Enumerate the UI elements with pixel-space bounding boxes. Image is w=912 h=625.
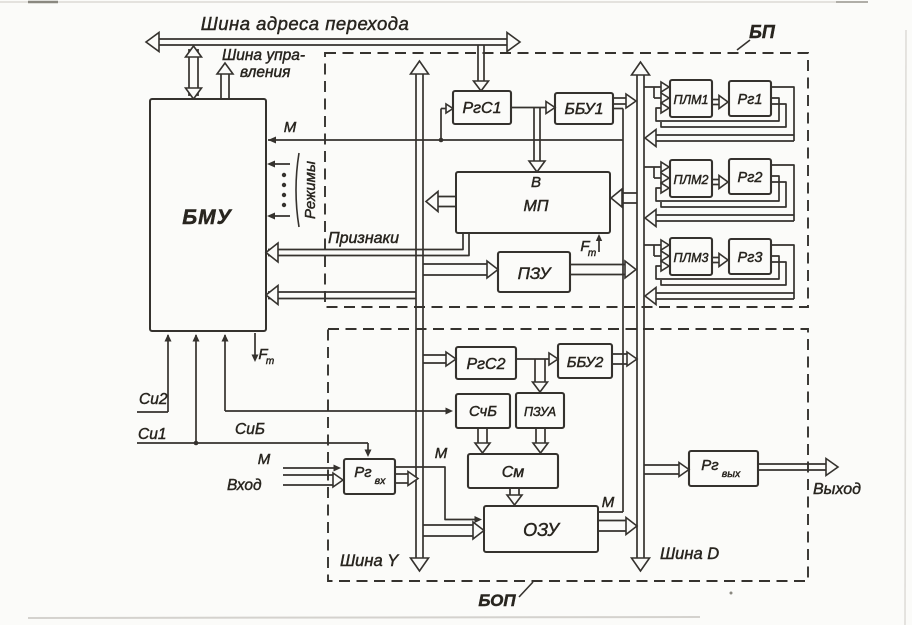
svg-text:СиБ: СиБ: [235, 421, 265, 438]
label M on Ргвх-ОЗУ wire: [435, 445, 448, 462]
svg-text:Си1: Си1: [138, 426, 166, 443]
wire: ОЗУ to bus D (double line arrow): [598, 518, 637, 535]
label Шина Y: [340, 552, 399, 570]
wire: СиБ input line (to BMU and СчБ): [222, 334, 454, 415]
block ПЗУ: [498, 252, 570, 292]
wire: RgS1 to BBU1: [511, 102, 555, 114]
svg-text:БП: БП: [749, 22, 776, 42]
svg-text:вх: вх: [375, 475, 386, 487]
wire: ББУ2 to bus D (double line arrow): [612, 352, 637, 366]
svg-text:М: М: [435, 445, 448, 462]
wire: outer feedback of Рг2 to bus D (long left arrow): [645, 165, 794, 227]
scan artifact line at bottom: [28, 617, 700, 618]
svg-text:БМУ: БМУ: [182, 206, 232, 229]
label СиБ: [235, 421, 265, 438]
svg-text:ПЗУА: ПЗУА: [524, 405, 556, 419]
wire: bus D branch into ПЛМ1 (two arrows): [644, 82, 669, 103]
wire: Вход input to Ргвх (double line arrow): [283, 473, 343, 487]
label Шина адреса перехода: [201, 13, 410, 34]
svg-text:Шина Y: Шина Y: [340, 552, 399, 570]
svg-text:т: т: [588, 248, 596, 259]
label Шина D: [660, 545, 719, 563]
wire: feedback loop 2 of Рг3: [661, 262, 786, 285]
svg-text:вления: вления: [240, 64, 290, 81]
block ББУ1: [555, 93, 613, 124]
label БП with leader: [737, 22, 776, 50]
block МП (microprocessor): [456, 172, 610, 233]
svg-text:Рг: Рг: [354, 464, 372, 481]
wire: ПЛМ2 to Рг2 arrow: [712, 176, 728, 189]
wire: Ргвх output to bus Y (double line arrow): [395, 472, 418, 486]
svg-text:Шина D: Шина D: [660, 545, 719, 563]
wire: bus Y to ОЗУ (double line arrow): [423, 522, 484, 539]
block Ргвых (output register): [689, 451, 758, 486]
block БМУ (microprogram control unit): [150, 99, 266, 331]
wire: priznaki line 2 (bus Y to BMU, double line): [266, 286, 416, 305]
dashed enclosure BOP (block БОП): [328, 329, 808, 581]
wire: BMU to address bus (vertical double line, arrows both ends): [186, 46, 202, 99]
wire: Си2 input to BMU: [137, 334, 172, 412]
label Шина управления: [222, 47, 305, 81]
svg-text:Рг3: Рг3: [738, 250, 763, 266]
bracket for Режимы: [296, 153, 299, 227]
wire: См to ОЗУ (double line, down arrow): [507, 488, 522, 505]
wire: ПЗУА to См (double line, down arrow): [533, 428, 548, 453]
svg-text:Рг: Рг: [701, 457, 719, 474]
wire: Ргвых to Выход (double line arrow): [758, 459, 838, 476]
label БОП with leader: [478, 582, 533, 610]
svg-text:т: т: [266, 356, 274, 367]
wire: bus D branch into ПЛМ2 (two arrows): [644, 162, 669, 183]
label Режимы (rotated): [302, 161, 319, 219]
wire: Ft input to MP bottom: [596, 234, 602, 252]
wire: M line into BMU (from M vertical): [268, 137, 623, 144]
label Ft near MP: [580, 238, 596, 259]
label Си2: [139, 391, 168, 408]
block См (adder): [468, 454, 558, 488]
block СчБ: [456, 394, 510, 428]
wire: outer feedback of Рг1 to bus D (long left arrow): [645, 87, 794, 147]
wire: RgS1 branch down to MP (double line, down arrow): [529, 108, 545, 172]
svg-text:ББУ2: ББУ2: [567, 354, 604, 371]
svg-text:ПЛМ1: ПЛМ1: [674, 93, 709, 107]
scan artifact: page edge right: [905, 30, 906, 625]
wire: СчБ to См (double line, down arrow): [475, 428, 490, 453]
bus stub: Шина управления (up arrow from BMU top): [217, 63, 233, 98]
block Рг3: [729, 239, 771, 274]
wire: M input to Ргвх: [283, 465, 341, 472]
wire: PZU to bus D (double line arrow): [570, 261, 636, 278]
label M near OZU: [602, 494, 615, 511]
block Ргвх (input register): [344, 459, 395, 494]
svg-text:Режимы: Режимы: [302, 161, 319, 219]
svg-text:вых: вых: [722, 468, 741, 480]
label M near BMU: [284, 119, 297, 136]
wire: feedback loop 1 of Рг3: [656, 256, 779, 279]
wire: M vertical line (BBU1 down to OZU): [598, 109, 623, 513]
node: junction on M line: [439, 138, 444, 143]
svg-text:Вход: Вход: [227, 477, 262, 494]
svg-text:См: См: [502, 464, 525, 481]
wire: bus Y to PZU (double line arrow): [423, 261, 498, 278]
svg-text:РгС1: РгС1: [462, 100, 501, 117]
block Рг1: [729, 81, 771, 116]
block РгС2: [456, 347, 516, 379]
label Си1: [138, 426, 166, 443]
block ПЛМ3: [670, 238, 712, 275]
label Выход: [813, 481, 861, 498]
wire: M branch up to RgS1 input: [441, 104, 453, 140]
block Рг2: [729, 159, 771, 194]
svg-text:Си2: Си2: [139, 391, 168, 408]
block ПЛМ1: [670, 80, 712, 117]
wire: rezhim input arrow 2 into BMU: [267, 213, 290, 220]
wire: РгС2 to ББУ2: [516, 353, 558, 365]
wire: Си1 input line (to BMU and Ргвх): [137, 334, 372, 457]
block ББУ2: [558, 344, 612, 378]
wire: feedback loop 1 of Рг2: [656, 176, 779, 201]
svg-text:Рг1: Рг1: [738, 92, 763, 108]
wire: ПЛМ3 to Рг3 arrow: [712, 254, 728, 267]
svg-text:М: М: [258, 451, 271, 468]
block ПЛМ2: [670, 160, 712, 197]
svg-text:Рг2: Рг2: [738, 170, 763, 186]
wire: branch down to ПЗУА (double line, down arrow): [533, 359, 548, 392]
svg-text:Шина адреса перехода: Шина адреса перехода: [201, 13, 410, 34]
wire: priznaki line 1 (MP bottom to BMU, double line): [266, 233, 469, 262]
wire: Ft output from BMU bottom: [252, 333, 259, 362]
block ОЗУ (RAM): [484, 506, 598, 552]
wire: ПЛМ1 to Рг1 arrow: [712, 96, 728, 109]
wire: Ргвх M output to ОЗУ: [395, 467, 482, 523]
wire: address bus down to RgS1 (double line, down arrow): [474, 45, 489, 91]
wire: outer feedback of Рг3 to bus D (long left arrow): [645, 245, 794, 305]
wire: MP left output arrow to bus Y: [426, 192, 456, 212]
block РгС1: [453, 91, 511, 124]
svg-text:Признаки: Признаки: [328, 230, 399, 247]
wire: rezhim input arrow 1 into BMU: [267, 161, 290, 168]
svg-text:ББУ1: ББУ1: [564, 101, 603, 118]
dots between rezhim arrows: [282, 173, 286, 207]
wire: feedback loop 2 of Рг2: [661, 182, 786, 207]
svg-text:РгС2: РгС2: [466, 356, 505, 373]
label Признаки: [328, 230, 399, 247]
svg-text:Выход: Выход: [813, 481, 861, 498]
wire: bus D to Ргвых (double line arrow): [644, 463, 689, 477]
bus: Шина адреса перехода (horizontal double line, arrows both ends): [146, 33, 520, 52]
svg-text:ПЗУ: ПЗУ: [518, 264, 553, 283]
wire: MP right input arrow from bus D: [611, 189, 637, 207]
svg-text:М: М: [284, 119, 297, 136]
svg-text:ОЗУ: ОЗУ: [523, 520, 560, 540]
bus: Шина Y (vertical double line): [411, 61, 429, 571]
svg-text:В: В: [531, 174, 541, 191]
dashed enclosure BP (block БП): [325, 53, 808, 307]
wire: feedback loop 1 of Рг1: [656, 98, 779, 121]
svg-text:ПЛМ3: ПЛМ3: [674, 251, 709, 265]
label Ft near BMU: [258, 346, 274, 367]
block ПЗУА: [516, 393, 564, 428]
wire: BBU1 to bus D (double line arrow): [613, 94, 636, 108]
label Вход: [227, 477, 262, 494]
wire: bus Y to РгС2 (double line arrow): [423, 352, 456, 366]
scan artifact: top edge: [0, 1, 868, 3]
bus: Шина D (vertical double line): [632, 62, 650, 571]
wire: bus D branch into ПЛМ3 (two arrows): [644, 240, 669, 261]
wire: feedback loop 2 of Рг1: [661, 104, 786, 127]
svg-text:МП: МП: [524, 198, 549, 215]
label M near Ргвх input: [258, 451, 271, 468]
svg-text:М: М: [602, 494, 615, 511]
svg-text:СчБ: СчБ: [469, 403, 497, 420]
svg-text:Шина упра-: Шина упра-: [222, 47, 305, 64]
svg-text:БОП: БОП: [478, 591, 516, 610]
svg-text:ПЛМ2: ПЛМ2: [674, 173, 709, 187]
